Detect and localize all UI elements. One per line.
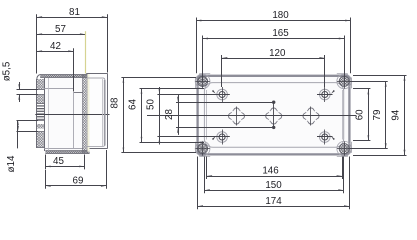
svg-text:28: 28 — [164, 109, 175, 120]
top view: corner tab top-right — [337, 74, 352, 89]
top view: corner tab bottom-right — [337, 142, 352, 157]
top view: corner radius leader arrow 3 — [212, 136, 216, 140]
dimension 180 (overall width) — [196, 10, 351, 73]
top view: corner radius leader arrow 4 — [331, 136, 335, 140]
svg-text:79: 79 — [372, 110, 383, 121]
top view: knockout left — [229, 107, 245, 126]
svg-text:ø14: ø14 — [6, 155, 17, 172]
top view: corner radius leader arrow 2 — [331, 90, 335, 94]
svg-text:180: 180 — [272, 10, 289, 21]
svg-text:94: 94 — [391, 109, 402, 120]
dimension 94 (overall height) — [353, 75, 407, 155]
label ø14 (flange hole diameter) — [6, 120, 38, 172]
svg-text:45: 45 — [53, 156, 64, 167]
label ø5,5 (flange hole diameter) — [2, 61, 39, 102]
dimension 42 (to inner wall) — [37, 41, 74, 92]
top view: corner screw 1 — [195, 74, 210, 89]
svg-text:174: 174 — [265, 196, 282, 207]
side view: hatched wall column — [83, 74, 88, 153]
top view: corner screw 3 — [195, 141, 210, 156]
top view: lid screw hole 1 — [217, 87, 228, 102]
top view: corner tab top-left — [196, 74, 211, 89]
side view: box interior lines — [44, 78, 83, 151]
side view: pale highlight strip — [87, 74, 89, 152]
top view: knockout right — [303, 107, 319, 126]
dimension 120 (lid screw spacing) — [222, 48, 325, 87]
side view: box body fill — [44, 74, 108, 152]
side view: box bottom edge band — [45, 151, 89, 154]
top view: horizontal center line — [147, 115, 356, 117]
dimension 88 (left chain) — [110, 77, 196, 153]
dimension 60 (right) — [353, 89, 370, 141]
top view: lid recess inner edge right — [342, 90, 344, 140]
side view: lid outline — [86, 74, 108, 149]
top view: knockout middle — [266, 108, 282, 124]
top view: corner tab bottom-left — [196, 142, 211, 157]
side view: lid inner lines — [87, 78, 105, 146]
dimension 165 (corner screw spacing) — [203, 28, 345, 81]
svg-text:50: 50 — [146, 99, 157, 110]
top view: lid screw hole 2 — [320, 87, 331, 102]
top view: lid screw hole 3 — [217, 130, 228, 145]
dimension 50 (lid screw hole vertical spacing) — [146, 87, 333, 145]
top view: lid recess inner edge left — [206, 90, 208, 140]
side view: center line — [35, 114, 109, 116]
dimension 69 (bottom overall width) — [45, 150, 106, 189]
dimension 64 (left chain) — [128, 88, 204, 142]
dimension 28 (knockout line spacing) — [164, 95, 274, 135]
svg-text:57: 57 — [55, 24, 66, 35]
svg-text:150: 150 — [265, 180, 282, 191]
dimension 45 (bottom body width) — [45, 155, 84, 170]
dimension 57 (box+lid width) — [37, 24, 86, 74]
top view: middle knockout vertical line with dots — [272, 101, 275, 130]
svg-text:120: 120 — [269, 48, 286, 59]
dimension 146 — [207, 157, 343, 180]
svg-text:42: 42 — [50, 41, 61, 52]
svg-text:81: 81 — [69, 7, 80, 18]
svg-text:165: 165 — [272, 28, 289, 39]
svg-text:64: 64 — [128, 99, 139, 110]
svg-text:69: 69 — [73, 175, 84, 186]
top view: body fill — [196, 74, 351, 156]
top view: corner radius leader arrow 1 — [212, 90, 216, 94]
top view: lid recess outline — [204, 83, 343, 148]
svg-text:ø5,5: ø5,5 — [2, 61, 13, 81]
side view: left flange column — [37, 75, 45, 152]
dimension 81 (top width incl. flange) — [37, 7, 108, 74]
svg-text:88: 88 — [110, 97, 121, 108]
dimension 79 (corner screw vertical spacing) — [350, 81, 388, 148]
top view: main outline — [198, 76, 350, 155]
dimension 150 — [204, 157, 343, 194]
svg-text:146: 146 — [262, 166, 279, 177]
svg-text:60: 60 — [355, 109, 366, 120]
top view: corner screw 2 — [337, 74, 352, 89]
dimension 174 — [198, 157, 350, 210]
top view: corner screw 4 — [337, 141, 352, 156]
top view: lid screw hole 4 — [320, 130, 331, 145]
side view: box top edge band — [40, 74, 87, 77]
